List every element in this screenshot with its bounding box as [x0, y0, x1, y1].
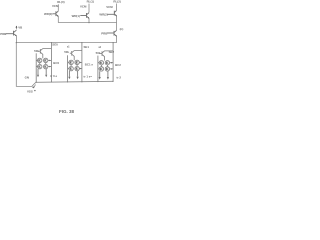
svg-text:VCM: VCM [52, 4, 59, 8]
svg-text:tr 0 e: tr 0 e [50, 74, 57, 78]
svg-text:VCM: VCM [80, 5, 87, 9]
svg-text:RL(2): RL(2) [113, 0, 120, 3]
svg-text:a1: a1 [67, 46, 70, 48]
svg-text:(n): (n) [120, 27, 124, 31]
svg-text:VSS: VSS [27, 90, 33, 94]
svg-text:FIG. 38: FIG. 38 [59, 109, 75, 114]
svg-text:a2: a2 [99, 47, 102, 49]
svg-text:WR(2): WR(2) [99, 13, 107, 17]
svg-text:RL(1): RL(1) [87, 0, 94, 4]
svg-text:GN: GN [25, 76, 29, 80]
svg-text:50k: 50k [96, 51, 101, 55]
svg-text:PRB: PRB [101, 32, 107, 36]
svg-text:SE1: SE1 [84, 45, 90, 49]
svg-text:BC0: BC0 [53, 61, 59, 65]
svg-text:BC2: BC2 [115, 63, 121, 67]
svg-text:tr 1 e=: tr 1 e= [84, 75, 93, 79]
svg-text:WR(1): WR(1) [72, 14, 80, 18]
svg-text:tr 2: tr 2 [117, 75, 122, 79]
svg-text:SE0: SE0 [52, 43, 58, 47]
svg-text:BC1 e: BC1 e [85, 63, 94, 67]
svg-text:SE2: SE2 [109, 50, 115, 54]
svg-text:50k: 50k [64, 50, 69, 54]
svg-text:50k: 50k [34, 49, 39, 53]
svg-text:VCM: VCM [106, 5, 113, 9]
svg-text:WR(0): WR(0) [44, 12, 52, 16]
svg-text:VB: VB [18, 25, 22, 29]
svg-text:PRB: PRB [0, 32, 6, 36]
